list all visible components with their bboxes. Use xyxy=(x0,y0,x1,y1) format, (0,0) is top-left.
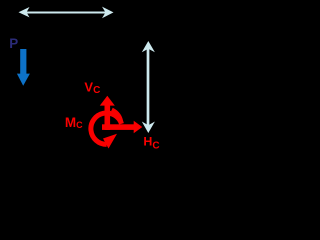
wire: right vertical dimension line xyxy=(147,46,150,129)
node left arrowhead of top dimension xyxy=(19,7,30,17)
node top arrowhead of right dimension xyxy=(142,41,155,52)
axial H_C arrow (red, rightward) xyxy=(102,124,135,130)
node right arrowhead of top dimension xyxy=(102,7,114,19)
node bottom arrowhead of right dimension xyxy=(142,122,155,134)
wire: top horizontal dimension line xyxy=(24,12,108,14)
force P arrow (blue, downward) xyxy=(20,49,26,75)
shear V_C arrow (red, upward) xyxy=(105,104,111,130)
svg-text:P: P xyxy=(9,36,18,51)
moment M_C curved arrow xyxy=(91,113,122,144)
